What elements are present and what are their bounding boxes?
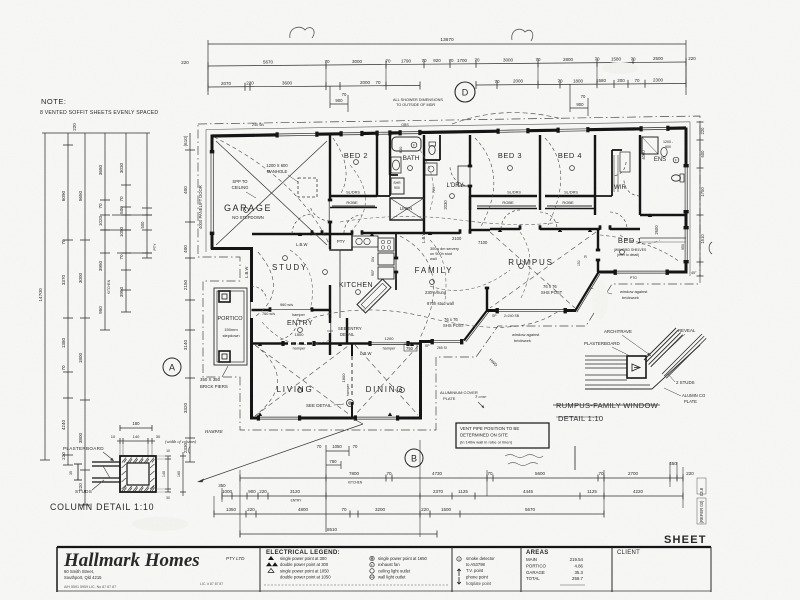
- bath walls: [389, 135, 391, 175]
- stud wall into column: [92, 461, 120, 463]
- ens fixtures: [642, 137, 658, 154]
- bay diagonal SW: [464, 311, 487, 341]
- bed1 west wall: [597, 229, 599, 250]
- grid bubble A: [163, 358, 181, 376]
- vent pipe note: [456, 423, 549, 448]
- laundry tub: [425, 163, 437, 175]
- dashed curve above plan: [452, 113, 562, 124]
- outer wall top: [212, 135, 277, 136]
- rumpus south wall: [487, 309, 497, 312]
- scan smudges: [602, 62, 638, 74]
- garage east wall: [329, 135, 331, 200]
- left dimension chains: [44, 133, 46, 460]
- legend col 3: [457, 557, 461, 561]
- bay diagonal SE to bed1: [575, 273, 598, 311]
- hall south wall kitchen/family north: [310, 233, 352, 235]
- top dimension chains: [208, 43, 686, 45]
- living/dining divider: [351, 344, 353, 357]
- interior door jambs: [311, 230, 314, 234]
- column detail: [120, 427, 152, 429]
- column right dims: [167, 456, 169, 492]
- family bay south segment: [422, 340, 432, 343]
- bath fixtures: [392, 137, 421, 151]
- bed1 south wall: [597, 271, 615, 274]
- kitchen walls: [329, 285, 331, 318]
- title block frame: [57, 546, 711, 548]
- linen: [390, 198, 424, 220]
- wc and laundry walls: [439, 135, 441, 160]
- south wall living/dining: [250, 417, 258, 420]
- right side dims: [699, 122, 701, 276]
- wir shelving: [613, 155, 615, 192]
- grid bubble D: [455, 82, 475, 102]
- bed1 robe shelves: [640, 237, 686, 239]
- portico: [214, 288, 247, 365]
- shower: [391, 178, 404, 194]
- wc fixture: [429, 146, 435, 155]
- bedroom wing south wall / rumpus north: [490, 228, 520, 230]
- grid bubble B: [405, 449, 423, 467]
- west wall living/entry: [250, 247, 253, 302]
- door swing arcs: [292, 214, 312, 234]
- kitchen bench and appliances: [339, 250, 341, 318]
- slab line top: [206, 122, 690, 130]
- entry walls: [252, 309, 271, 311]
- window detail right: [585, 355, 627, 357]
- east wall dining: [419, 340, 422, 420]
- ceiling dashed arcs: [255, 345, 278, 416]
- garage bottom wall: [211, 247, 253, 250]
- living north wall: [252, 342, 284, 344]
- bed4 walls: [594, 135, 596, 215]
- bottom dimension chains: [325, 445, 327, 532]
- extra dashed leaders: [340, 216, 560, 224]
- outer wall left (garage): [211, 135, 214, 153]
- wir ens walls: [611, 150, 613, 196]
- garage/study wall: [252, 233, 312, 235]
- bed3 walls: [470, 195, 537, 197]
- column square: [120, 456, 156, 492]
- electrical symbols: [283, 256, 288, 261]
- eaves outline dash-dot: [198, 116, 700, 430]
- east outer wall: [685, 128, 688, 167]
- bed2 walls: [376, 135, 378, 196]
- rumpus west wall: [486, 288, 488, 311]
